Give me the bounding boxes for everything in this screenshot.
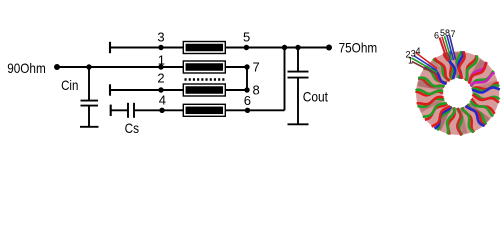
svg-text:8: 8 [445,28,450,38]
svg-text:75Ohm: 75Ohm [339,39,378,55]
toroid core ring [429,65,486,122]
wire winding2 to node 8 [225,89,247,91]
wire Cin vertical lead [88,67,90,101]
svg-text:Cs: Cs [125,120,139,136]
node junction Cout tap [295,45,300,50]
terminal bar row4 left [110,105,112,116]
winding L3 [183,42,225,54]
svg-text:Cin: Cin [61,77,78,93]
svg-text:4: 4 [416,46,421,56]
wire connecting node 7 to node 8 [246,67,248,90]
node 2 [158,87,163,92]
node 5 [244,45,249,50]
capacitor Cout [288,72,309,78]
svg-text:6: 6 [434,31,439,41]
core dotted line [185,78,227,80]
terminal 75Ohm output [326,45,332,51]
wire Cout bottom lead [297,78,299,124]
capacitor Cs [128,103,134,118]
svg-text:2: 2 [157,70,164,85]
svg-text:3: 3 [157,29,164,44]
svg-text:1: 1 [158,53,165,68]
svg-text:7: 7 [253,60,260,75]
wire row2 (bar to winding 2) [110,89,184,91]
node 3 [158,45,163,50]
svg-text:90Ohm: 90Ohm [7,60,46,76]
node 4 [159,108,164,113]
node 1 [158,64,163,69]
svg-text:1: 1 [408,55,413,65]
node junction Cin tap [86,64,91,69]
wire row3 (bar to node 5) [110,47,246,49]
wire Cin bottom lead [88,106,90,127]
toroid lead bundle top [440,35,456,61]
svg-text:6: 6 [244,93,251,108]
terminal bar row3 left [109,42,111,53]
node junction right branch [282,45,287,50]
toroid winding stripes [415,51,499,135]
wire Cs to winding 4 [134,109,184,111]
svg-text:5: 5 [243,29,250,44]
winding L2 [183,84,225,96]
svg-text:Cout: Cout [303,88,328,104]
svg-text:4: 4 [159,92,166,107]
winding L1 [183,61,225,73]
toroid core shading patches [430,65,486,122]
toroid photo [406,28,500,135]
svg-text:8: 8 [253,83,260,98]
wire winding1 to node 7 [225,66,247,68]
node 7 [244,64,249,69]
terminal bar Cin bottom [80,126,99,128]
capacitor Cin [81,101,99,106]
toroid lead bundle left [412,53,438,75]
svg-text:7: 7 [451,29,456,39]
terminal 90Ohm input [54,64,60,70]
wire row1 left (90Ohm to winding 1) [57,66,184,68]
wire row4 bar to Cs [111,109,128,111]
winding L4 [183,104,225,116]
wire row3 right (node 5 to 75Ohm terminal) [246,47,329,49]
terminal bar row2 left [109,84,111,95]
wire right branch vertical [284,48,286,111]
wire Cout top lead [297,48,299,73]
node 8 [244,87,249,92]
wire winding4 to right branch [225,109,284,111]
terminal bar Cout bottom [288,123,309,125]
node 6 [245,108,250,113]
